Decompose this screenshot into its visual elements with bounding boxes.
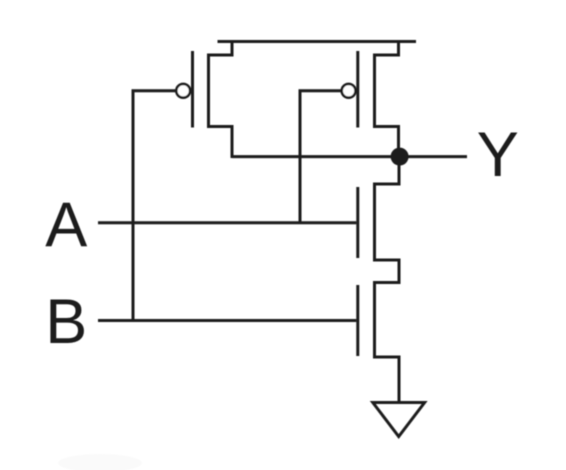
wire output Y — [232, 155, 467, 158]
transistor P1 drain lead — [207, 127, 232, 159]
svg-text:Y: Y — [477, 120, 519, 190]
svg-text:A: A — [45, 190, 87, 260]
faint smudge bottom-left — [58, 454, 142, 470]
transistor P2 drain lead — [373, 127, 399, 159]
transistor P1 (left PMOS) source lead — [207, 40, 232, 55]
transistor N2 source lead to ground — [373, 357, 399, 403]
transistor P2 channel bar — [373, 54, 376, 127]
ground symbol — [373, 403, 425, 437]
transistor P1 channel bar — [207, 54, 210, 127]
transistor P2 (right PMOS) source lead — [373, 40, 399, 55]
transistor P2 gate bubble — [342, 84, 356, 98]
wire VDD rail — [218, 40, 417, 43]
transistor N1 channel bar — [373, 183, 376, 261]
transistor N2 (bottom NMOS) channel bar — [373, 281, 376, 357]
junction dot on node Y — [391, 148, 409, 166]
wire P1 gate to node B branch — [133, 91, 178, 321]
svg-text:B: B — [45, 287, 87, 357]
transistor N1 (top NMOS) drain lead — [373, 157, 399, 184]
transistor P2 gate bar — [356, 51, 359, 128]
wire P2 gate to node A branch — [300, 91, 343, 223]
transistor N2 gate bar — [356, 285, 359, 356]
wire input A — [98, 221, 356, 224]
transistor P1 gate bar — [191, 51, 194, 128]
wire N1 source to N2 drain — [373, 260, 399, 283]
wire input B — [98, 319, 356, 322]
transistor P1 gate bubble — [176, 84, 190, 98]
transistor N1 gate bar — [356, 187, 359, 258]
